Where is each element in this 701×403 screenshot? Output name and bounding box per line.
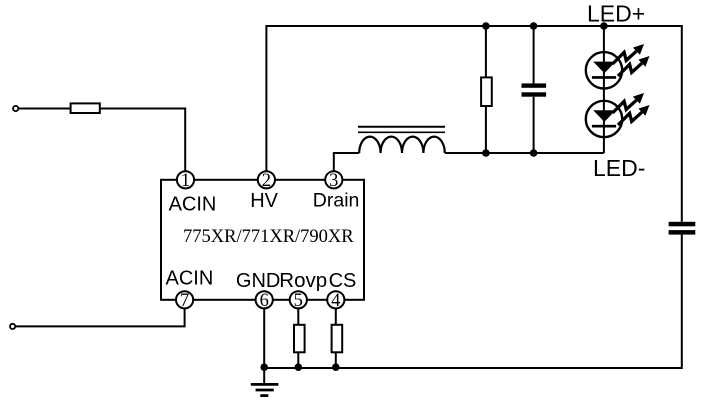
svg-text:ACIN: ACIN bbox=[166, 268, 214, 290]
svg-text:Drain: Drain bbox=[313, 190, 360, 212]
svg-text:4: 4 bbox=[331, 291, 340, 311]
svg-text:HV: HV bbox=[250, 190, 278, 212]
svg-text:775XR/771XR/790XR: 775XR/771XR/790XR bbox=[183, 227, 354, 247]
svg-text:3: 3 bbox=[329, 171, 338, 191]
svg-text:1: 1 bbox=[181, 171, 190, 191]
svg-text:ACIN: ACIN bbox=[169, 193, 217, 215]
svg-text:6: 6 bbox=[260, 291, 269, 311]
svg-text:GND: GND bbox=[236, 270, 280, 292]
svg-text:LED-: LED- bbox=[593, 155, 645, 181]
svg-text:CS: CS bbox=[329, 270, 357, 292]
svg-text:LED+: LED+ bbox=[587, 1, 645, 27]
svg-text:Rovp: Rovp bbox=[279, 269, 327, 292]
svg-text:2: 2 bbox=[262, 171, 271, 191]
svg-text:7: 7 bbox=[180, 291, 189, 311]
svg-text:5: 5 bbox=[294, 291, 303, 311]
